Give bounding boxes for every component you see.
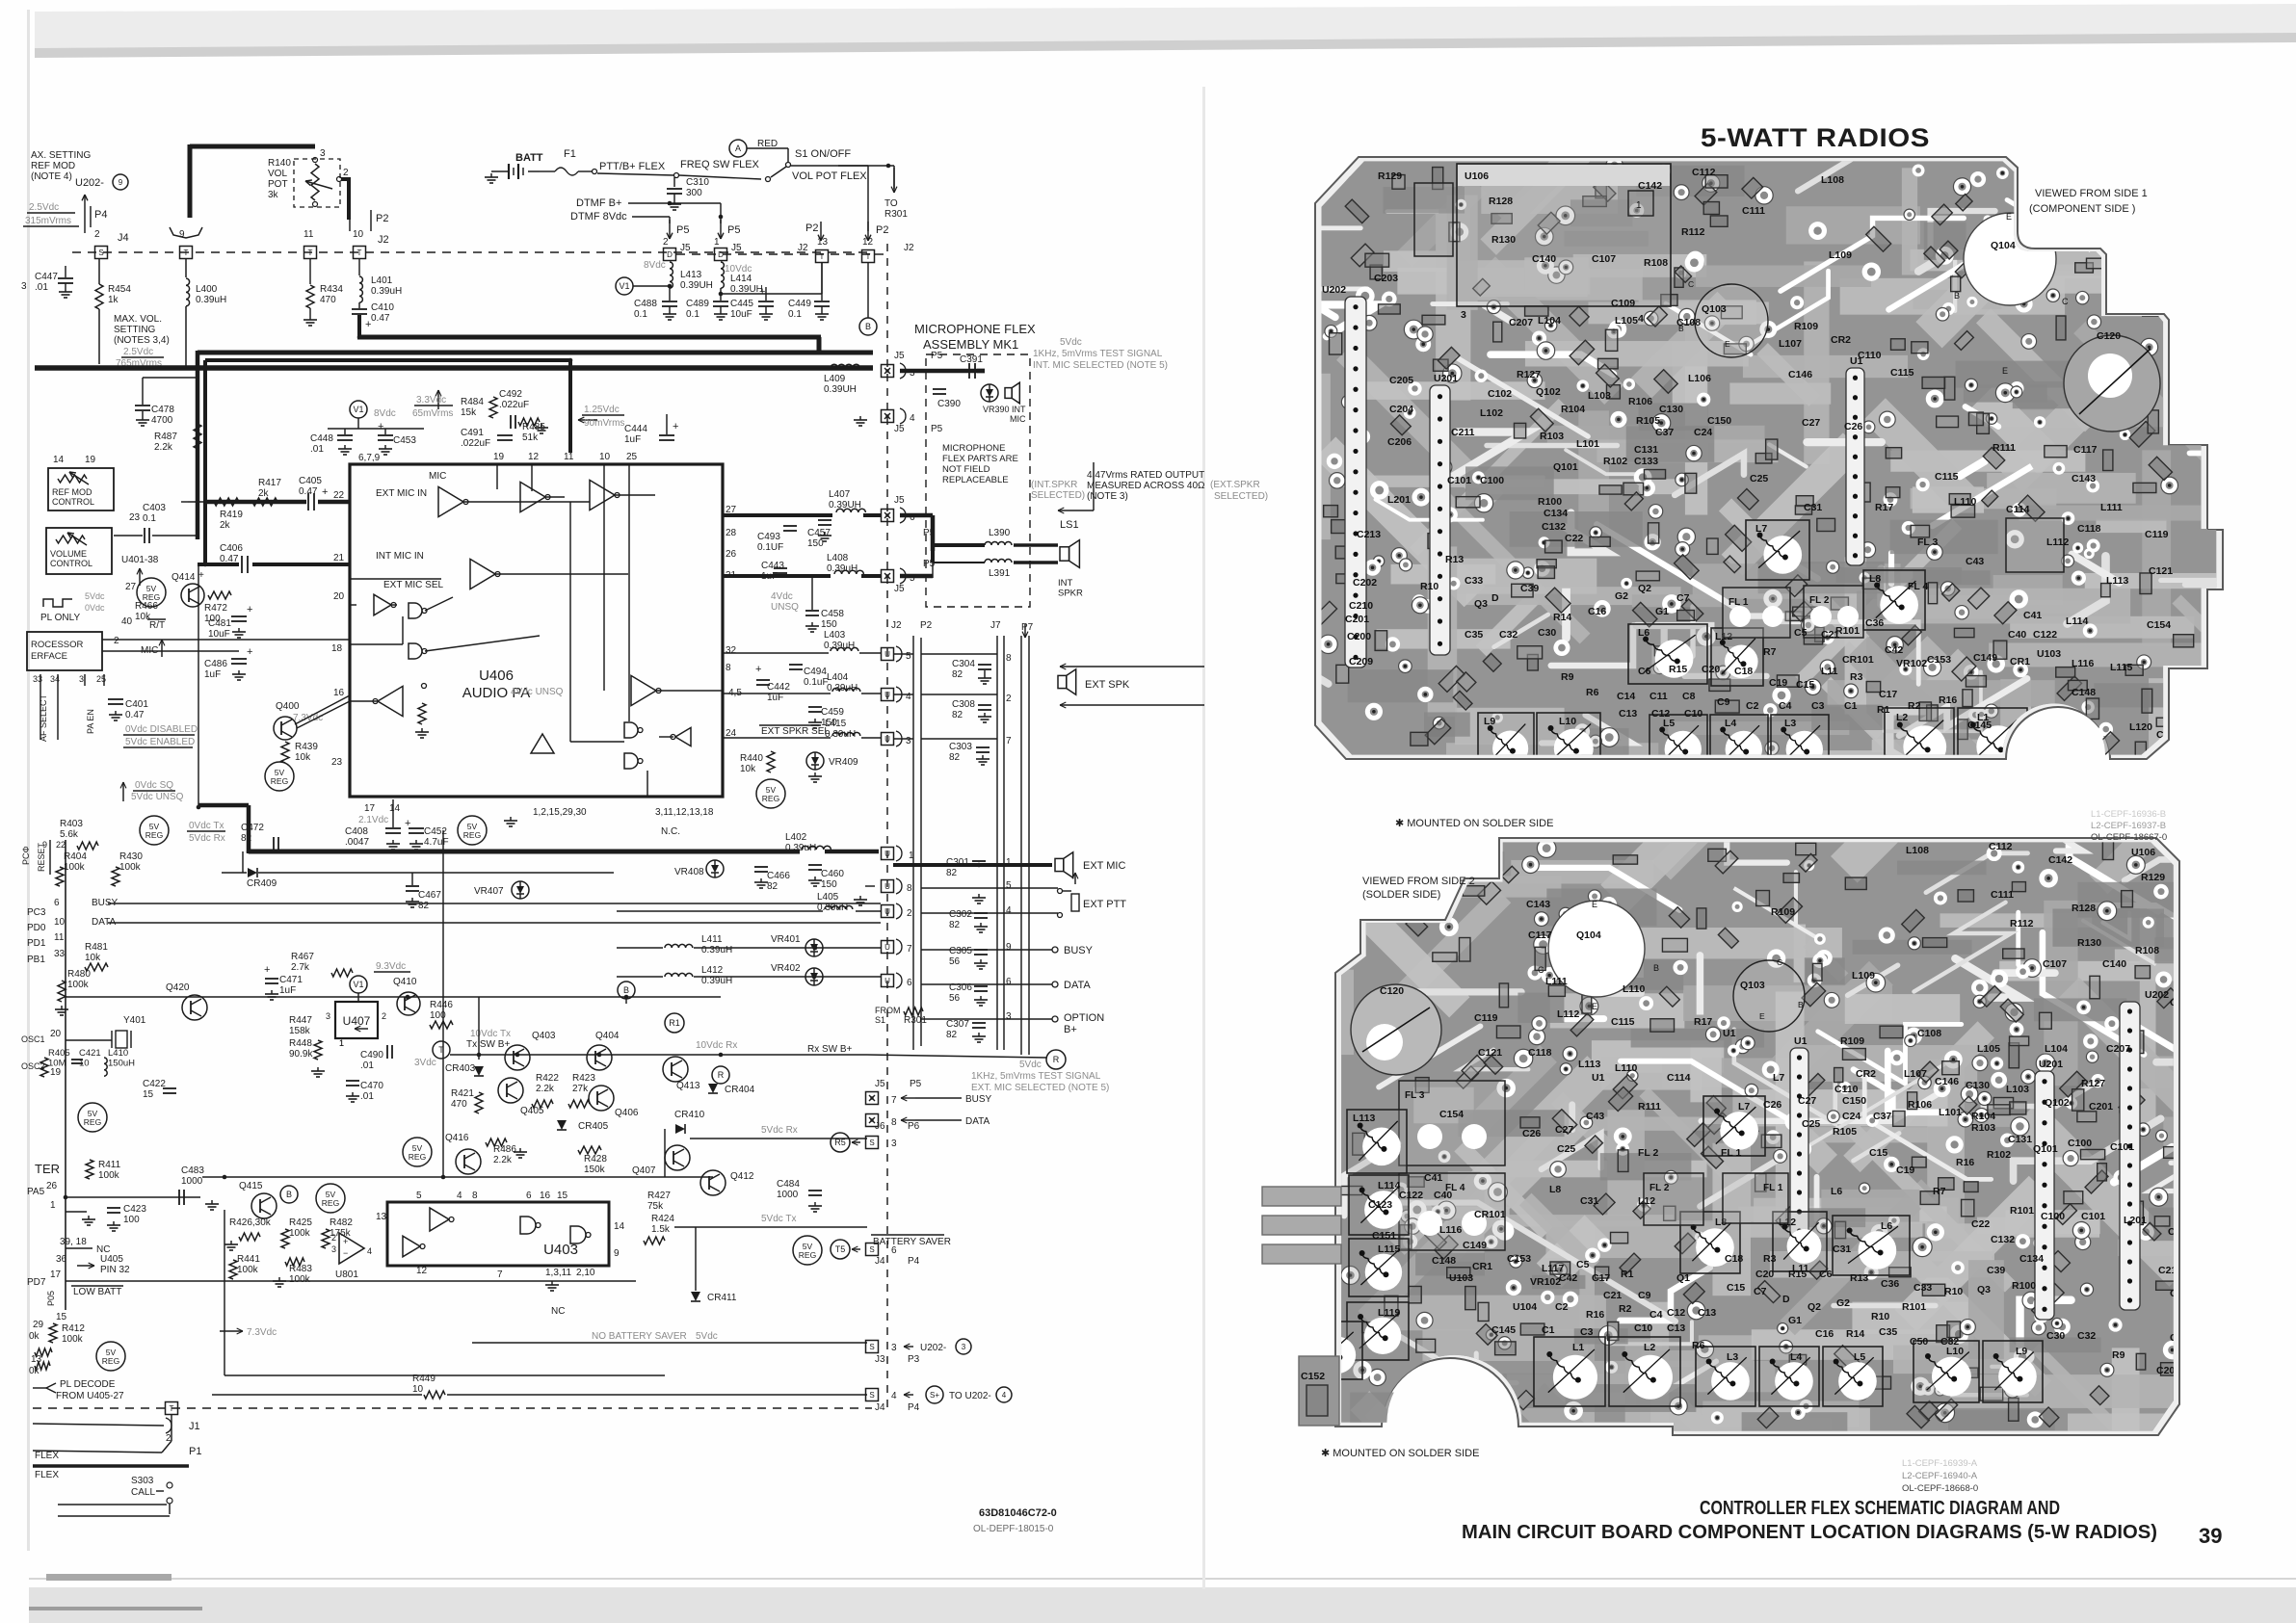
svg-text:SELECTED): SELECTED) (1031, 490, 1085, 501)
PCB connector strip U1 (1846, 368, 1864, 565)
svg-text:J5: J5 (731, 243, 742, 253)
svg-text:FREQ SW FLEX: FREQ SW FLEX (680, 159, 760, 170)
capacitor C471 1uF (265, 978, 278, 980)
svg-text:3: 3 (320, 148, 326, 159)
svg-text:2.5Vdc: 2.5Vdc (123, 347, 153, 357)
svg-text:BUSY: BUSY (1064, 945, 1094, 956)
PCB inductor box L120 (1303, 1322, 1362, 1379)
svg-text:+: + (365, 319, 371, 330)
ic U407 box (335, 1002, 378, 1038)
box PROCESSOR INTERFACE (27, 632, 102, 670)
svg-text:13: 13 (376, 1212, 387, 1222)
svg-text:5Vdc: 5Vdc (1060, 337, 1082, 348)
svg-text:15k: 15k (461, 407, 477, 418)
svg-text:R7: R7 (1763, 646, 1777, 658)
svg-text:0.1: 0.1 (143, 513, 156, 524)
svg-text:R419: R419 (220, 510, 243, 520)
svg-text:2k: 2k (258, 488, 270, 499)
svg-text:0.1: 0.1 (788, 309, 802, 320)
svg-text:L113: L113 (1353, 1113, 1376, 1124)
svg-text:VR402: VR402 (771, 963, 801, 974)
svg-text:L8: L8 (1869, 573, 1881, 585)
svg-text:5.6k: 5.6k (60, 829, 79, 840)
svg-text:VOLUME: VOLUME (50, 549, 87, 559)
node A circle (729, 140, 747, 157)
dashed bottom flex line (33, 1407, 872, 1409)
PCB inductor box L2 (1609, 1337, 1680, 1406)
svg-text:.022uF: .022uF (461, 438, 490, 449)
svg-text:C305: C305 (949, 946, 972, 956)
top light trace patches (1840, 278, 2065, 315)
svg-text:R9: R9 (2112, 1349, 2125, 1361)
svg-text:EXT MIC SEL: EXT MIC SEL (383, 580, 443, 590)
PCB inductor box L6 (1628, 624, 1707, 684)
svg-text:R447: R447 (289, 1015, 312, 1026)
svg-text:U: U (884, 907, 890, 916)
svg-text:C15: C15 (1727, 1282, 1745, 1294)
svg-text:R405: R405 (48, 1048, 70, 1059)
svg-text:U1: U1 (1592, 1072, 1605, 1084)
thick speaker wires (933, 543, 985, 547)
svg-text:PCΦ: PCΦ (21, 846, 31, 865)
svg-text:L12: L12 (1638, 1195, 1655, 1207)
svg-text:C119: C119 (1474, 1012, 1498, 1024)
svg-text:L107: L107 (1904, 1068, 1927, 1080)
svg-text:T5: T5 (835, 1244, 846, 1254)
svg-text:L9: L9 (2016, 1346, 2027, 1357)
svg-text:NC: NC (551, 1306, 565, 1317)
svg-text:Q415: Q415 (239, 1181, 263, 1191)
wire T12 down (867, 262, 869, 318)
svg-text:15: 15 (557, 1191, 568, 1201)
svg-text:1000: 1000 (777, 1190, 799, 1200)
svg-text:R428: R428 (584, 1154, 607, 1165)
pot R129 (1414, 183, 1453, 256)
svg-text:L113: L113 (1578, 1059, 1601, 1070)
nand gate 2 (409, 643, 422, 659)
svg-text:C408: C408 (345, 826, 368, 837)
svg-text:FL 2: FL 2 (1649, 1183, 1670, 1193)
svg-text:U106: U106 (1465, 170, 1489, 182)
svg-text:C3: C3 (1811, 700, 1825, 712)
svg-text:Q406: Q406 (615, 1108, 639, 1118)
svg-text:C405: C405 (299, 476, 322, 486)
svg-text:L120: L120 (2129, 721, 2152, 733)
capacitor C493 0.1UF (783, 525, 797, 527)
svg-text:P5: P5 (676, 224, 689, 236)
svg-text:C21: C21 (1821, 629, 1839, 641)
svg-text:U104: U104 (1513, 1301, 1537, 1313)
wire U406 gates to bottom edge (647, 771, 648, 797)
svg-text:10: 10 (54, 917, 66, 928)
svg-text:FROM: FROM (875, 1006, 901, 1015)
wire bracket at T9 (170, 227, 202, 238)
svg-text:C470: C470 (360, 1081, 383, 1091)
svg-text:CR411: CR411 (707, 1293, 737, 1303)
svg-text:R: R (1053, 1055, 1060, 1064)
svg-text:R112: R112 (1681, 226, 1705, 238)
svg-text:(NOTES 3,4): (NOTES 3,4) (114, 335, 170, 346)
wire pin27 bus (723, 513, 832, 517)
svg-text:U801: U801 (335, 1270, 358, 1280)
5V REG circle below U406 (458, 816, 487, 845)
svg-text:R106: R106 (1628, 396, 1652, 407)
svg-text:R127: R127 (2081, 1078, 2105, 1089)
pot R140 symbol (311, 164, 319, 200)
svg-text:SETTING: SETTING (114, 325, 156, 335)
capacitor C410 0.47 (358, 302, 360, 308)
svg-text:5Vdc: 5Vdc (85, 591, 105, 601)
svg-text:V1: V1 (619, 281, 629, 291)
bot white traces (2016, 912, 2020, 965)
and gate 1 (624, 722, 638, 738)
svg-text:REG: REG (102, 1356, 119, 1366)
svg-text:L411: L411 (701, 934, 723, 945)
svg-text:L404: L404 (827, 672, 849, 683)
svg-text:PA EN: PA EN (86, 709, 95, 734)
svg-text:TO: TO (884, 198, 898, 209)
dashed wire D-D-T-T row (676, 253, 872, 255)
svg-text:OL-CEPF-18668-0: OL-CEPF-18668-0 (1902, 1483, 1978, 1494)
svg-text:R411: R411 (98, 1160, 121, 1170)
svg-text:REG: REG (799, 1250, 816, 1260)
resistor R472 100 (208, 591, 231, 599)
svg-text:C120: C120 (1380, 985, 1404, 997)
svg-text:U106: U106 (2131, 847, 2155, 858)
svg-text:C39: C39 (1987, 1265, 2005, 1276)
PCB inductor box L8 (1863, 570, 1925, 630)
svg-text:C3: C3 (1580, 1326, 1594, 1338)
svg-text:7.3Vdc: 7.3Vdc (247, 1327, 277, 1338)
svg-text:23: 23 (129, 512, 141, 523)
scanner shadow band bottom (29, 1587, 2296, 1623)
svg-text:2.2k: 2.2k (536, 1084, 555, 1094)
svg-text:C2: C2 (1746, 700, 1759, 712)
svg-text:51k: 51k (522, 432, 539, 443)
buffer amp 3 (590, 480, 615, 510)
svg-text:A: A (735, 144, 741, 153)
svg-text:CR409: CR409 (247, 878, 277, 889)
svg-text:19: 19 (50, 1067, 62, 1078)
svg-text:6: 6 (526, 1191, 532, 1201)
svg-text:R404: R404 (64, 851, 87, 862)
ground at J5-4 (859, 416, 861, 420)
svg-text:C1: C1 (1844, 700, 1858, 712)
svg-text:L108: L108 (1821, 174, 1844, 186)
svg-text:C42: C42 (1885, 644, 1903, 656)
svg-text:C115: C115 (1935, 471, 1959, 483)
svg-text:4.7uF: 4.7uF (424, 837, 449, 848)
scanner shadow band top (35, 4, 2296, 56)
svg-text:R111: R111 (1993, 442, 2016, 454)
svg-text:4: 4 (1002, 1391, 1007, 1400)
thick wire INT MIC IN (198, 563, 239, 566)
svg-text:J5: J5 (894, 584, 905, 594)
svg-text:OSC2: OSC2 (21, 1061, 45, 1071)
svg-text:C16: C16 (1815, 1328, 1834, 1340)
thick audio bus main (35, 365, 873, 371)
wires J2 rows (893, 653, 913, 655)
thick vertical to lower bus (198, 564, 199, 807)
svg-text:C488: C488 (634, 299, 657, 309)
svg-text:0.39UH: 0.39UH (824, 384, 857, 395)
svg-text:C308: C308 (952, 699, 975, 710)
svg-text:ASSEMBLY MK1: ASSEMBLY MK1 (923, 337, 1018, 352)
svg-text:Q3: Q3 (1474, 598, 1488, 610)
svg-text:E: E (2006, 212, 2012, 222)
connector J7 vertical (996, 636, 998, 1050)
svg-text:L3: L3 (1727, 1351, 1738, 1363)
thick wire from pot wiper (341, 177, 349, 181)
connector T box J2 pin 9 (180, 247, 193, 259)
wires inside U406 (463, 501, 590, 503)
svg-text:17: 17 (364, 803, 376, 814)
diode VR408 (706, 860, 724, 877)
svg-text:R102: R102 (1603, 456, 1627, 467)
svg-text:C107: C107 (1592, 253, 1616, 265)
svg-text:Q413: Q413 (676, 1081, 700, 1091)
svg-text:.0047: .0047 (345, 837, 369, 848)
svg-text:UNSQ: UNSQ (771, 602, 799, 613)
svg-text:FL 1: FL 1 (1721, 1147, 1742, 1159)
svg-text:R6: R6 (1586, 687, 1599, 698)
svg-text:1KHz, 5mVrms TEST SIGNAL: 1KHz, 5mVrms TEST SIGNAL (1033, 349, 1163, 359)
svg-text:C130: C130 (1966, 1080, 1990, 1091)
ground below U406 (510, 817, 512, 821)
svg-text:DTMF B+: DTMF B+ (576, 197, 621, 209)
svg-text:C110: C110 (1858, 350, 1882, 361)
svg-text:5: 5 (1006, 880, 1012, 891)
svg-text:56: 56 (949, 956, 961, 967)
thick wire down to U406 pin11 (568, 360, 572, 453)
ground U403 (551, 1281, 553, 1285)
svg-text:R109: R109 (1794, 321, 1818, 332)
svg-text:15: 15 (143, 1089, 154, 1100)
svg-text:MEASURED ACROSS 40Ω: MEASURED ACROSS 40Ω (1087, 481, 1205, 491)
svg-text:C486: C486 (204, 659, 227, 669)
svg-text:P2: P2 (805, 223, 818, 234)
wire to TO R301 (838, 165, 894, 167)
thick vertical ext mic (196, 351, 200, 539)
svg-text:R301: R301 (904, 1015, 927, 1026)
svg-text:P5: P5 (910, 1079, 922, 1089)
svg-text:C1: C1 (1542, 1324, 1555, 1336)
svg-text:FL 2: FL 2 (1809, 595, 1830, 606)
resistor R440 10k (767, 751, 775, 772)
svg-text:P6: P6 (908, 1121, 920, 1132)
capacitor C460 150 (808, 864, 822, 866)
svg-text:2: 2 (907, 908, 912, 919)
svg-text:OPTION: OPTION (1064, 1012, 1104, 1024)
svg-text:C211: C211 (1451, 427, 1475, 438)
svg-text:SPKR: SPKR (1058, 589, 1083, 599)
svg-text:R3: R3 (1763, 1253, 1777, 1265)
svg-text:R109: R109 (1840, 1035, 1864, 1047)
svg-text:C13: C13 (1698, 1307, 1716, 1319)
PCB connector strip U201 (1430, 385, 1450, 655)
resistor R486 2.2k (486, 1139, 507, 1146)
svg-text:5Vdc Tx: 5Vdc Tx (761, 1214, 797, 1224)
svg-text:R481: R481 (85, 942, 108, 953)
svg-text:C11: C11 (1649, 691, 1668, 702)
svg-text:C130: C130 (1659, 404, 1683, 415)
opamp U801 (339, 1233, 364, 1264)
svg-text:VOL POT FLEX: VOL POT FLEX (792, 170, 867, 182)
svg-text:L403: L403 (824, 630, 846, 641)
svg-text:C207: C207 (2106, 1043, 2130, 1055)
svg-text:R10: R10 (1871, 1311, 1889, 1322)
wire J4 column (98, 259, 100, 284)
svg-text:P5: P5 (931, 351, 943, 361)
5V REG left (78, 1103, 107, 1132)
buffer amp 2 (520, 482, 545, 511)
svg-text:J5: J5 (894, 351, 905, 361)
node T circle (433, 1041, 450, 1059)
svg-text:L1-CEPF-16939-A: L1-CEPF-16939-A (1902, 1458, 1978, 1469)
wire U406 internal vertical pin10 (603, 464, 605, 691)
svg-text:C302: C302 (949, 909, 972, 920)
svg-text:L4: L4 (1725, 718, 1736, 729)
svg-text:U202: U202 (1322, 284, 1346, 296)
svg-text:5: 5 (416, 1191, 422, 1201)
svg-text:R439: R439 (295, 742, 318, 752)
transistor Q104 hole (1964, 213, 2056, 305)
PCB connector strip U201 (2035, 1071, 2054, 1320)
svg-text:470: 470 (451, 1099, 467, 1110)
capacitor C401 0.47 (108, 698, 123, 700)
svg-text:R467: R467 (291, 952, 314, 962)
svg-text:3: 3 (891, 1139, 897, 1149)
svg-text:C458: C458 (821, 609, 844, 619)
svg-text:28: 28 (726, 528, 737, 538)
svg-text:C154: C154 (2147, 619, 2171, 631)
svg-text:R104: R104 (1561, 404, 1585, 415)
svg-text:2k: 2k (220, 520, 231, 531)
svg-text:C112: C112 (1692, 167, 1716, 178)
svg-text:.022uF: .022uF (499, 400, 529, 410)
connector U box 4 (882, 689, 894, 701)
svg-text:150k: 150k (584, 1165, 606, 1175)
svg-text:S: S (869, 1391, 874, 1400)
svg-text:C31: C31 (1833, 1243, 1851, 1255)
svg-text:C40: C40 (2008, 629, 2026, 641)
svg-text:U1: U1 (1723, 1028, 1736, 1039)
svg-text:(COMPONENT SIDE ): (COMPONENT SIDE ) (2029, 203, 2135, 215)
svg-text:C100: C100 (2068, 1138, 2092, 1149)
inductor L390 (985, 542, 1012, 546)
PCB inductor box L3 (1771, 715, 1829, 774)
thick wire J5-5 into flex (900, 574, 933, 579)
svg-text:27k: 27k (572, 1084, 589, 1094)
svg-text:J5: J5 (875, 1079, 885, 1089)
thick wire vol pot top (190, 144, 315, 149)
svg-text:0.1uF: 0.1uF (804, 677, 829, 688)
svg-text:C43: C43 (1966, 556, 1984, 567)
node R circle (712, 1066, 729, 1084)
svg-text:5Vdc: 5Vdc (696, 1331, 718, 1342)
svg-text:82: 82 (767, 881, 779, 892)
svg-text:1.25Vdc: 1.25Vdc (584, 405, 620, 415)
svg-text:C20: C20 (1755, 1269, 1774, 1280)
capacitor C466 82 (754, 866, 768, 868)
PCB inductor box L1 (1534, 1337, 1605, 1406)
svg-text:L104: L104 (2045, 1043, 2068, 1055)
svg-text:5Vdc UNSQ: 5Vdc UNSQ (131, 792, 184, 802)
svg-text:ROCESSOR: ROCESSOR (31, 640, 84, 650)
svg-text:1uF: 1uF (204, 669, 221, 680)
svg-text:FL 1: FL 1 (1763, 1183, 1783, 1193)
connector U box 8 (882, 880, 894, 893)
svg-text:FLEX: FLEX (35, 1451, 59, 1461)
svg-text:16: 16 (540, 1191, 551, 1201)
svg-text:C143: C143 (2072, 473, 2096, 484)
svg-text:PD1: PD1 (27, 938, 46, 949)
long wire BUSY row (108, 903, 881, 904)
svg-text:300: 300 (686, 188, 702, 198)
svg-text:R6: R6 (1692, 1340, 1705, 1351)
wire T13 down (821, 262, 823, 294)
svg-text:U406: U406 (479, 668, 514, 684)
svg-text:G1: G1 (1655, 606, 1669, 617)
svg-text:C134: C134 (2019, 1253, 2044, 1265)
inductor L403 (831, 647, 858, 651)
svg-text:P7: P7 (1021, 622, 1034, 633)
svg-text:23: 23 (331, 757, 343, 768)
svg-text:PL DECODE: PL DECODE (60, 1379, 116, 1390)
svg-text:C8: C8 (1682, 691, 1696, 702)
svg-text:C133: C133 (1634, 456, 1658, 467)
svg-text:L11: L11 (1821, 666, 1838, 677)
svg-text:C9: C9 (1638, 1290, 1651, 1301)
svg-text:C117: C117 (1528, 929, 1552, 941)
svg-text:150uH: 150uH (108, 1059, 135, 1069)
svg-text:10Vdc Tx: 10Vdc Tx (470, 1029, 511, 1039)
node R5 (831, 1133, 850, 1152)
speaker EXT MIC (1055, 858, 1064, 871)
svg-text:L8: L8 (1549, 1184, 1561, 1195)
svg-text:Q104: Q104 (1576, 929, 1601, 941)
svg-text:C472: C472 (241, 823, 264, 833)
svg-text:J2: J2 (891, 620, 902, 631)
svg-text:L2-CEPF-16937-B: L2-CEPF-16937-B (2091, 821, 2166, 831)
svg-text:R130: R130 (2077, 937, 2101, 949)
svg-text:C111: C111 (1742, 205, 1765, 217)
svg-text:P4: P4 (908, 1256, 920, 1267)
svg-text:MAX. VOL.: MAX. VOL. (114, 314, 162, 325)
svg-text:470: 470 (320, 295, 336, 305)
svg-text:J4: J4 (118, 232, 129, 244)
net 1.25Vdc 90mVrms (578, 419, 597, 421)
node R bottom right (1046, 1050, 1066, 1069)
svg-text:U: U (884, 977, 890, 985)
svg-text:C149: C149 (1463, 1240, 1487, 1251)
svg-text:C25: C25 (1750, 473, 1768, 484)
svg-text:G1: G1 (1788, 1315, 1802, 1326)
svg-text:VR407: VR407 (474, 886, 504, 897)
svg-text:C43: C43 (1586, 1111, 1604, 1122)
svg-text:Q414: Q414 (172, 572, 196, 583)
top board outline (1315, 157, 2223, 759)
svg-text:C494: C494 (804, 667, 827, 677)
svg-text:C483: C483 (181, 1165, 204, 1176)
svg-text:C100: C100 (2041, 1211, 2065, 1222)
svg-text:L4: L4 (1790, 1351, 1802, 1363)
svg-text:L410: L410 (108, 1048, 128, 1059)
svg-text:C140: C140 (2102, 958, 2126, 970)
svg-text:L114: L114 (2066, 615, 2089, 627)
svg-text:J1: J1 (189, 1421, 200, 1432)
svg-text:L2: L2 (1896, 712, 1908, 723)
